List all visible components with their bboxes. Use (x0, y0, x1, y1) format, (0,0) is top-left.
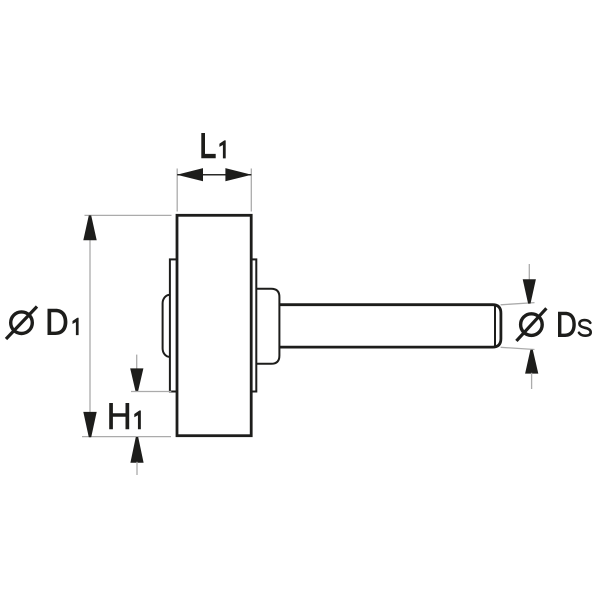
label D1 text (48, 309, 68, 335)
dimension D1: extension line bottom (82, 436, 171, 438)
dimension L1: arrowhead left (177, 168, 203, 181)
label Ds text (558, 312, 576, 337)
dimension Ds: lower arrowhead (up) (525, 350, 538, 374)
hub block (254, 289, 279, 364)
shank (279, 305, 501, 347)
dimension L1: arrowhead right (225, 168, 251, 181)
label diameter symbol Ds (516, 308, 546, 341)
dimension L1: extension line left (176, 169, 178, 212)
dimension Ds: upper arrowhead (down) (523, 279, 536, 303)
dimension D1: extension line top (85, 214, 172, 216)
dimension Ds: leader line top (501, 303, 535, 305)
wheel body (177, 215, 251, 435)
dimension Ds: upper arrow stem (528, 264, 530, 281)
right flange strip (251, 259, 256, 391)
dimension H1: lower arrowhead (up) (130, 437, 143, 463)
dimension D1: arrowhead down (83, 412, 96, 437)
dimension Ds: lower arrow stem (531, 373, 533, 389)
dimension D1: dimension line (89, 215, 91, 436)
dimension H1: lower arrow stem (136, 462, 138, 475)
left flange strip (170, 259, 178, 391)
dimension L1: extension line right (250, 169, 252, 212)
dimension Ds: leader line bottom (501, 347, 535, 349)
label diameter symbol D1 (6, 307, 37, 340)
dimension D1: arrowhead up (83, 215, 96, 240)
dimension H1: upper arrowhead (down) (130, 368, 143, 391)
label L1 (201, 133, 215, 158)
dimension H1: upper arrow stem (136, 355, 138, 370)
clamp tab (rounded bump left of flange) (163, 295, 177, 357)
dimension L1: dimension line (177, 174, 251, 176)
label H1 (109, 403, 129, 429)
shank chamfer line (494, 305, 496, 347)
dimension H1: reference line (flange bottom, extended) (131, 391, 171, 393)
